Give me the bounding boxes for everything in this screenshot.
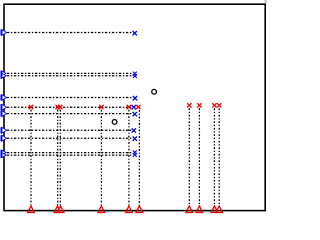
wire V10 (vertical) <box>218 108 220 205</box>
wire V3 (vertical) <box>59 110 61 206</box>
ground G5 (terminal triangle on bottom rail) <box>126 206 133 213</box>
junction J8 (top of V8) <box>197 103 201 107</box>
junction J6 (tap on N4) <box>136 105 140 109</box>
wire N6 <box>7 129 132 131</box>
ground G1 (terminal triangle on bottom rail) <box>28 206 35 213</box>
wire N3 <box>7 97 132 99</box>
wire N2 (double/bus) <box>7 73 132 75</box>
junction J10 (top of V10) <box>217 103 221 107</box>
ground G8 (terminal triangle on bottom rail) <box>196 206 203 213</box>
wire V6 (vertical) <box>138 110 140 206</box>
port P8 (double/bus connector, left border) <box>1 150 7 158</box>
wire N5 <box>7 113 132 115</box>
wire N8 (double/bus) <box>7 153 132 156</box>
no-connect X4 (end of N4) <box>132 105 136 109</box>
no-connect X2 (end of N2) <box>133 72 137 78</box>
ground G7 (terminal triangle on bottom rail) <box>186 206 193 213</box>
port P5 (input connector, left border) <box>1 111 7 117</box>
wire V8 (vertical) <box>198 108 200 205</box>
junction J2 (tap on N4) <box>56 105 60 109</box>
ground G2 (terminal triangle on bottom rail) <box>54 206 61 213</box>
wire N4 <box>7 106 132 108</box>
wire V7 (vertical) <box>188 108 190 205</box>
ground G10 (terminal triangle on bottom rail) <box>216 206 223 213</box>
port P1 (input connector, left border) <box>1 29 7 35</box>
no-connect X3 (end of N3) <box>133 96 137 100</box>
wire V1 (vertical) <box>30 110 32 206</box>
no-connect X7 (end of N7) <box>133 137 137 141</box>
wire N1 <box>7 32 132 34</box>
wire V2 (vertical) <box>57 110 59 206</box>
ground G3 (terminal triangle on bottom rail) <box>57 206 64 213</box>
no-connect X5 (end of N5) <box>133 112 137 116</box>
port P6 (input connector, left border) <box>1 127 7 133</box>
junction J5 (tap on N4) <box>127 105 131 109</box>
ground G9 (terminal triangle on bottom rail) <box>211 206 218 213</box>
no-connect X1 (end of N1) <box>133 31 137 35</box>
junction J9 (top of V9) <box>212 103 216 107</box>
ground G6 (terminal triangle on bottom rail) <box>136 206 143 213</box>
port P2 (double/bus connector, left border) <box>1 70 7 78</box>
port P4 (input connector, left border) <box>1 104 7 110</box>
junction J4 (tap on N4) <box>99 105 103 109</box>
wire V4 (vertical) <box>100 110 102 206</box>
node A (open terminal circle) <box>152 89 157 94</box>
junction J3 (tap on N4) <box>58 105 62 109</box>
no-connect X8 (end of N8) <box>133 150 137 157</box>
port P7 (input connector, left border) <box>1 135 7 141</box>
no-connect X6 (end of N6) <box>132 128 136 132</box>
junction J1 (tap on N4) <box>29 105 33 109</box>
wire V5 (vertical) <box>128 110 130 206</box>
junction J7 (top of V7) <box>187 103 191 107</box>
wire V9 (vertical) <box>213 108 215 205</box>
ground G4 (terminal triangle on bottom rail) <box>98 206 105 213</box>
node B (open terminal circle) <box>112 120 117 125</box>
port P3 (input connector, left border) <box>1 94 7 100</box>
wire N7 <box>7 137 132 139</box>
